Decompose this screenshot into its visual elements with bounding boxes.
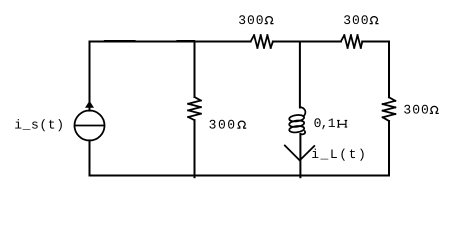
svg-text:300: 300 [343, 13, 369, 28]
wire top rail mid segment [273, 41, 341, 43]
current arrow i_L chevron [284, 145, 315, 161]
inductor L1 top hook [300, 107, 305, 117]
resistor R4 300ohm vertical zigzag (right rail) [383, 97, 396, 121]
wire right rail lower [388, 121, 390, 176]
inductor L1 coil loop 1 [289, 114, 305, 122]
wire inductor branch lower [299, 134, 301, 177]
svg-text:300: 300 [238, 13, 264, 28]
label 300ohm R3 omega [237, 121, 246, 128]
wire middle branch lower [194, 120, 196, 177]
label 300ohm R4 omega [430, 106, 439, 113]
wire overlap mark top rail 2 [177, 40, 195, 42]
svg-text:0,1: 0,1 [314, 116, 336, 131]
label 300ohm R2 omega [370, 17, 379, 24]
svg-text:300: 300 [403, 103, 429, 118]
wire overlap mark top rail 1 [105, 40, 136, 42]
label 300ohm R1 omega [265, 17, 274, 24]
wire right rail upper [388, 42, 390, 98]
wire top rail right segment [362, 41, 389, 43]
wire bottom rail [90, 175, 390, 177]
svg-text:i_L(t): i_L(t) [311, 147, 367, 162]
wire top rail left segment [90, 41, 251, 43]
resistor R2 300ohm horizontal zigzag [341, 35, 363, 48]
svg-text:i_s(t): i_s(t) [14, 118, 64, 133]
wire left rail upper [89, 42, 91, 111]
current source I1 bar [75, 125, 105, 127]
resistor R1 300ohm horizontal zigzag [251, 35, 273, 48]
wire left rail lower [89, 140, 91, 175]
current source I1 circle [75, 111, 105, 141]
label 0,1H L1 letter H [337, 121, 347, 128]
wire inductor branch upper [299, 42, 301, 108]
svg-text:300: 300 [209, 117, 237, 132]
inductor L1 coil loop 2 [289, 120, 305, 128]
current source I1 arrowhead [85, 101, 94, 108]
inductor L1 bottom hook [300, 130, 305, 134]
inductor L1 coil loop 3 [289, 125, 305, 133]
resistor R3 300ohm vertical zigzag (middle branch) [188, 97, 201, 120]
wire middle branch upper [194, 42, 196, 98]
